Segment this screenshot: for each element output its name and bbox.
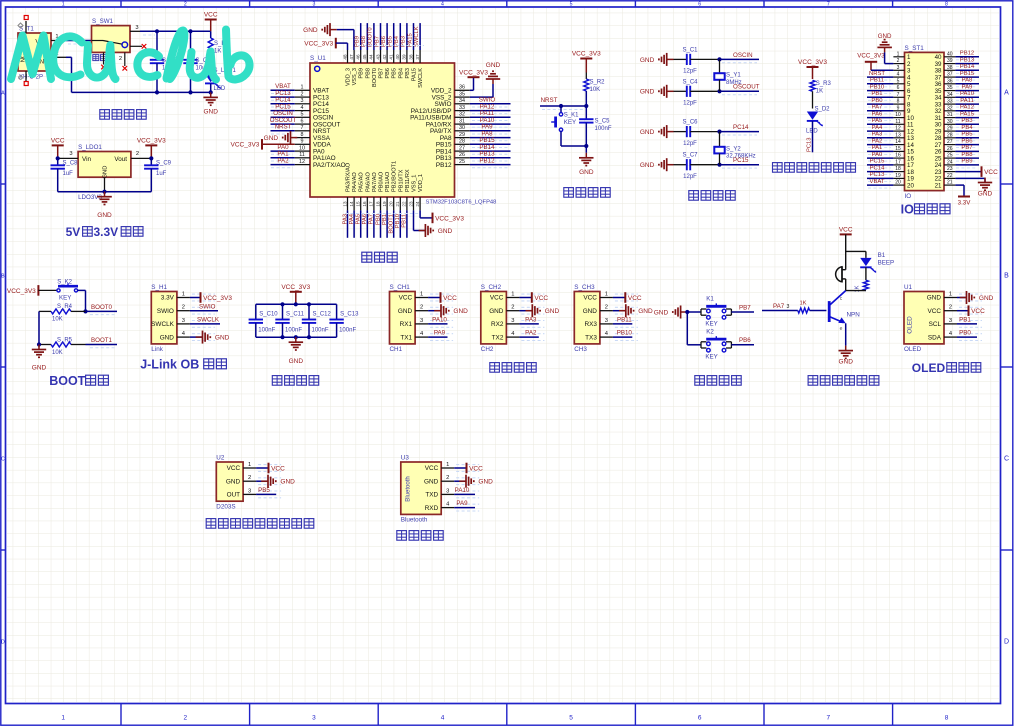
svg-text:PA5: PA5 xyxy=(872,118,883,124)
svg-text:29: 29 xyxy=(459,132,465,138)
svg-text:VCC_3V3: VCC_3V3 xyxy=(572,51,601,58)
svg-text:PB7: PB7 xyxy=(379,68,385,79)
power flag 3.3V (IO pin21) xyxy=(955,185,971,206)
wire and net label PA3 (S_CH2) xyxy=(519,317,538,324)
svg-text:D203S: D203S xyxy=(216,503,235,510)
svg-text:S_C9: S_C9 xyxy=(156,161,172,167)
svg-text:VCC: VCC xyxy=(469,465,483,472)
svg-text:PA4: PA4 xyxy=(349,213,355,224)
svg-text:2: 2 xyxy=(949,305,952,311)
svg-text:PB12: PB12 xyxy=(436,162,452,169)
svg-text:S_C4: S_C4 xyxy=(682,79,698,85)
svg-text:PB15: PB15 xyxy=(960,71,975,77)
svg-text:TX3: TX3 xyxy=(585,334,597,341)
svg-text:2: 2 xyxy=(182,305,185,311)
wire BOOT left rail xyxy=(37,311,41,346)
svg-text:PA9: PA9 xyxy=(456,500,468,507)
svg-text:S_R4: S_R4 xyxy=(57,304,73,310)
svg-text:14: 14 xyxy=(349,201,354,207)
wire K2 to BOOT0 node xyxy=(83,290,87,313)
svg-text:8: 8 xyxy=(301,132,304,138)
svg-text:PB9: PB9 xyxy=(359,68,365,79)
wire to K2 xyxy=(687,312,701,345)
svg-text:3: 3 xyxy=(182,318,185,324)
svg-text:36: 36 xyxy=(947,78,953,84)
wire T1 pin1 to switch xyxy=(66,41,92,45)
svg-text:15: 15 xyxy=(356,201,361,207)
svg-text:42: 42 xyxy=(382,54,387,60)
svg-text:PB10: PB10 xyxy=(617,330,633,337)
svg-text:VCC: VCC xyxy=(984,169,998,176)
svg-text:PB1: PB1 xyxy=(959,317,971,324)
svg-text:47: 47 xyxy=(349,54,354,60)
svg-text:BOOT0: BOOT0 xyxy=(368,27,374,47)
svg-text:PB0: PB0 xyxy=(959,330,971,337)
svg-text:1K: 1K xyxy=(799,301,806,307)
switch K2 KEY xyxy=(701,329,754,361)
resistor S_R5 10K xyxy=(39,337,86,356)
svg-text:PA6/AO: PA6/AO xyxy=(365,172,371,192)
svg-text:GND: GND xyxy=(398,308,413,315)
svg-text:3: 3 xyxy=(248,488,251,494)
wire switch pin3 to VCC rail xyxy=(140,29,211,35)
label 程序运行指示灯 xyxy=(773,163,856,173)
svg-text:SWIO: SWIO xyxy=(199,303,216,310)
svg-text:GND: GND xyxy=(640,162,655,169)
svg-text:14: 14 xyxy=(895,139,901,145)
svg-text:Bluetooth: Bluetooth xyxy=(401,517,428,524)
svg-text:PA3/RX/AO: PA3/RX/AO xyxy=(346,162,352,192)
svg-text:PB13: PB13 xyxy=(960,57,975,63)
svg-text:32: 32 xyxy=(459,112,465,118)
svg-text:PB10/TX: PB10/TX xyxy=(398,169,404,192)
svg-text:22: 22 xyxy=(947,173,953,179)
svg-text:S_C8: S_C8 xyxy=(63,161,79,167)
resistor 1K (alarm LED) xyxy=(846,280,869,292)
svg-text:PB8: PB8 xyxy=(365,68,371,79)
svg-text:PA3: PA3 xyxy=(872,132,883,138)
svg-text:OUT: OUT xyxy=(227,492,241,499)
svg-text:C: C xyxy=(1,457,5,463)
svg-text:PA3: PA3 xyxy=(342,214,348,225)
svg-text:2: 2 xyxy=(897,58,900,64)
svg-text:35: 35 xyxy=(459,92,465,98)
svg-text:PA7/AO: PA7/AO xyxy=(372,172,378,192)
svg-text:2: 2 xyxy=(511,305,514,311)
svg-text:PA6: PA6 xyxy=(872,111,883,117)
label 人体热释电感应模块 xyxy=(206,519,314,529)
svg-text:C: C xyxy=(1004,456,1009,463)
svg-text:VCC: VCC xyxy=(425,465,439,472)
svg-text:PA5: PA5 xyxy=(356,214,362,225)
svg-text:3: 3 xyxy=(420,318,423,324)
svg-text:PB11: PB11 xyxy=(617,317,632,324)
ground GND (IO pin2) xyxy=(877,33,893,64)
resistor S_R3 1K xyxy=(810,80,831,108)
svg-text:J-Link OB: J-Link OB xyxy=(140,358,199,372)
wire filter bottom rail xyxy=(256,335,337,339)
svg-text:8: 8 xyxy=(945,715,949,722)
svg-text:NRST: NRST xyxy=(869,71,885,77)
svg-text:GND: GND xyxy=(927,295,942,302)
svg-text:7: 7 xyxy=(826,715,830,722)
svg-text:VCC_3V3: VCC_3V3 xyxy=(304,41,333,48)
svg-text:PA2/TX/AO: PA2/TX/AO xyxy=(313,162,346,169)
svg-text:U1: U1 xyxy=(904,284,913,291)
svg-text:30: 30 xyxy=(459,125,465,131)
svg-text:13: 13 xyxy=(342,201,347,207)
svg-text:D: D xyxy=(1,640,5,646)
svg-text:Vin: Vin xyxy=(82,156,91,163)
svg-text:1: 1 xyxy=(897,51,900,57)
svg-text:21: 21 xyxy=(395,201,400,207)
svg-text:PB11/RX: PB11/RX xyxy=(405,169,411,192)
power flag VCC_3V3 at U1 pin48 VDD_3 xyxy=(304,38,347,50)
svg-text:OLED: OLED xyxy=(904,346,922,353)
connector S_ST1 IO header body and pins xyxy=(893,45,955,200)
power flag VCC_3V3 (filter) xyxy=(281,284,310,304)
wire U1 VDD_1 to VCC_3V3 flag xyxy=(420,210,464,223)
wire and net label PA10 (Bluetooth TXD) xyxy=(454,487,475,494)
svg-text:16: 16 xyxy=(362,201,367,207)
svg-text:S_CH2: S_CH2 xyxy=(481,284,502,291)
svg-text:100nF: 100nF xyxy=(595,126,612,132)
wires and net labels below U1 (PA3 PA4 PA5 PA6 PA7 PB0 PB1 BOOT1 PB10 PB11) xyxy=(342,210,348,237)
svg-text:12: 12 xyxy=(895,126,901,132)
svg-text:GND: GND xyxy=(226,478,241,485)
svg-text:3: 3 xyxy=(787,304,790,310)
svg-text:S_K2: S_K2 xyxy=(57,279,72,285)
svg-text:VCC: VCC xyxy=(271,465,285,472)
power flag VCC_3V3 (IO pin3) xyxy=(857,53,893,71)
svg-text:S_C1: S_C1 xyxy=(682,47,698,53)
svg-text:31: 31 xyxy=(459,119,465,125)
svg-text:4: 4 xyxy=(301,105,304,111)
svg-text:RX3: RX3 xyxy=(584,321,597,328)
svg-text:11: 11 xyxy=(299,152,305,158)
label 串口电路 xyxy=(490,363,536,373)
MCUclub logo xyxy=(11,30,250,80)
ground GND (LDO) xyxy=(97,192,112,219)
svg-text:PB11: PB11 xyxy=(870,78,884,84)
svg-text:45: 45 xyxy=(362,54,367,60)
svg-text:39: 39 xyxy=(947,58,953,64)
label OLED显示屏 xyxy=(912,361,981,375)
label 蓝牙模块 xyxy=(397,531,443,541)
no-ERC cross at switch pin4 xyxy=(101,52,106,69)
svg-text:S_Y1: S_Y1 xyxy=(726,73,741,79)
svg-text:PB3: PB3 xyxy=(405,68,411,79)
svg-text:PA10: PA10 xyxy=(960,91,975,97)
svg-text:VCC: VCC xyxy=(928,308,942,315)
svg-text:32: 32 xyxy=(947,105,953,111)
svg-text:GND: GND xyxy=(489,308,504,315)
svg-text:PB6: PB6 xyxy=(961,138,973,144)
svg-text:40: 40 xyxy=(947,51,953,57)
power flag VCC (OLED) xyxy=(957,305,985,316)
svg-text:S_U1: S_U1 xyxy=(310,55,326,62)
capacitor S_C6 12pF xyxy=(674,120,720,147)
svg-text:VBAT: VBAT xyxy=(870,179,885,185)
svg-text:PA5/AO: PA5/AO xyxy=(359,172,365,192)
label IO拓展口 xyxy=(901,203,950,217)
svg-text:12: 12 xyxy=(299,159,305,165)
svg-text:VCC: VCC xyxy=(443,295,457,302)
svg-text:5V: 5V xyxy=(66,225,81,239)
crystal S_Y2 32.768KHz xyxy=(714,132,755,165)
svg-text:VCC: VCC xyxy=(399,295,413,302)
power flag VCC (IO pin23) xyxy=(955,166,998,177)
svg-text:1K: 1K xyxy=(816,89,823,95)
svg-text:40: 40 xyxy=(395,54,400,60)
svg-text:26: 26 xyxy=(459,152,465,158)
svg-text:2: 2 xyxy=(605,305,608,311)
svg-text:33: 33 xyxy=(947,99,953,105)
svg-text:GND: GND xyxy=(32,365,47,372)
svg-text:PB6: PB6 xyxy=(385,68,391,79)
wire and net label BOOT1 xyxy=(86,337,118,348)
svg-text:17: 17 xyxy=(895,159,901,165)
svg-text:2: 2 xyxy=(446,475,449,481)
wire and net label OSCOUT xyxy=(717,84,759,95)
svg-text:5: 5 xyxy=(897,78,900,84)
svg-text:GND: GND xyxy=(640,129,655,136)
svg-text:33: 33 xyxy=(459,105,465,111)
svg-text:PA9: PA9 xyxy=(962,84,973,90)
ground GND at U1 pin8 VSSA xyxy=(264,131,298,144)
svg-text:2: 2 xyxy=(301,92,304,98)
svg-text:VCC_3V3: VCC_3V3 xyxy=(435,215,464,222)
svg-text:GND: GND xyxy=(579,169,594,176)
power flag VCC_3V3 (reset) xyxy=(572,51,601,73)
svg-text:19: 19 xyxy=(895,173,901,179)
wire and net label PA7 with base resistor 1K xyxy=(762,301,826,314)
svg-text:PA7: PA7 xyxy=(773,303,785,310)
ground GND (filter) xyxy=(289,337,304,365)
svg-text:32.768KHz: 32.768KHz xyxy=(726,153,756,159)
svg-text:27: 27 xyxy=(459,146,465,152)
power flag VCC (alarm) xyxy=(839,227,853,235)
wire and net label PC13 (run LED) xyxy=(806,121,812,152)
ground GND (crystal row PC14) xyxy=(640,125,674,138)
capacitor S_C8 1uF xyxy=(51,156,79,191)
capacitor S_C11 100nF xyxy=(275,304,304,337)
svg-text:34: 34 xyxy=(947,92,953,98)
svg-text:Link: Link xyxy=(151,346,163,353)
svg-text:10: 10 xyxy=(299,146,305,152)
svg-text:3: 3 xyxy=(446,488,449,494)
capacitor S_C3 10uF xyxy=(183,31,211,92)
svg-text:21: 21 xyxy=(935,182,942,189)
svg-text:12pF: 12pF xyxy=(683,141,697,147)
svg-text:2: 2 xyxy=(248,475,251,481)
svg-text:GND: GND xyxy=(103,166,109,179)
svg-text:22: 22 xyxy=(402,201,407,207)
svg-text:1K: 1K xyxy=(214,49,221,55)
svg-text:SWCLK: SWCLK xyxy=(418,68,424,88)
wire U1 VSS_1 to GND xyxy=(414,210,453,237)
label 滤波电路 xyxy=(272,376,318,386)
svg-text:S_LDO1: S_LDO1 xyxy=(78,144,102,151)
svg-text:SCL: SCL xyxy=(929,321,942,328)
connector T1 (XH-C-2P power input) xyxy=(18,16,66,86)
svg-text:PA0: PA0 xyxy=(872,152,883,158)
svg-text:PC13: PC13 xyxy=(870,172,885,178)
svg-text:GND: GND xyxy=(280,479,295,486)
wire and net label SWCLK xyxy=(190,317,220,324)
svg-text:S_CH1: S_CH1 xyxy=(390,284,411,291)
ground GND at U1 pin47 VSS_3 xyxy=(303,23,354,50)
svg-text:GND: GND xyxy=(160,334,175,341)
power flag VCC (S_CH1) xyxy=(428,292,457,303)
svg-text:34: 34 xyxy=(459,98,465,104)
connector U1 OLED display xyxy=(904,292,944,344)
wire and net label PB10 (S_CH3) xyxy=(613,330,633,337)
svg-text:VCC_3V3: VCC_3V3 xyxy=(230,142,259,149)
svg-text:6: 6 xyxy=(698,715,702,722)
svg-text:17: 17 xyxy=(369,201,374,207)
svg-text:2: 2 xyxy=(184,2,187,8)
svg-text:PB14: PB14 xyxy=(960,64,975,70)
ground GND (crystal row OSCIN) xyxy=(640,53,674,66)
svg-text:OLED: OLED xyxy=(912,361,946,375)
svg-text:PB10: PB10 xyxy=(870,84,885,90)
svg-text:25: 25 xyxy=(459,159,465,165)
svg-text:S_C12: S_C12 xyxy=(313,312,332,318)
wire filter top rail xyxy=(256,302,337,306)
svg-text:NPN: NPN xyxy=(847,312,861,319)
power flag VCC (power circuit) xyxy=(204,12,218,32)
ground GND (crystal row OSCOUT) xyxy=(640,85,674,98)
svg-text:21: 21 xyxy=(947,180,953,186)
svg-text:GND: GND xyxy=(979,295,994,302)
svg-text:1: 1 xyxy=(62,2,65,8)
svg-text:9: 9 xyxy=(897,105,900,111)
svg-text:S_C6: S_C6 xyxy=(682,120,698,126)
svg-text:CH1: CH1 xyxy=(390,346,403,353)
svg-text:KEY: KEY xyxy=(564,119,576,126)
wire and net label PB11 (S_CH3) xyxy=(613,317,632,324)
svg-text:44: 44 xyxy=(369,54,374,60)
svg-text:PA15: PA15 xyxy=(412,68,418,81)
svg-text:VSS_1: VSS_1 xyxy=(412,175,418,192)
power flag VCC_3V3 (BOOT) xyxy=(7,285,57,296)
wire buzzer to collector xyxy=(845,279,847,291)
ground GND (power circuit) xyxy=(203,92,218,115)
svg-text:NRST: NRST xyxy=(541,97,558,104)
svg-text:1: 1 xyxy=(420,292,423,298)
svg-text:K2: K2 xyxy=(706,329,714,336)
svg-text:KEY: KEY xyxy=(705,353,717,360)
wires and net labels above U1 (PB9 PB8 BOOT0 PB7 PB6 PB5 PB4 PB3 PA15 SWCLK) xyxy=(355,23,361,50)
capacitor S_C9 1uF xyxy=(144,156,172,191)
svg-text:PB6: PB6 xyxy=(739,337,751,344)
svg-text:43: 43 xyxy=(375,54,380,60)
svg-text:GND: GND xyxy=(264,135,279,142)
svg-text:GND: GND xyxy=(289,358,304,365)
svg-text:GND: GND xyxy=(438,228,453,235)
svg-text:1: 1 xyxy=(248,462,251,468)
svg-text:PC14: PC14 xyxy=(870,165,885,171)
svg-text:SWIO: SWIO xyxy=(157,308,174,315)
op-amp U1 main MCU body S_U1 xyxy=(310,55,496,205)
switch K1 KEY xyxy=(685,296,754,328)
wire emitter to GND xyxy=(845,323,847,345)
svg-text:10K: 10K xyxy=(52,317,63,323)
svg-text:PB4: PB4 xyxy=(961,125,973,131)
wire power-circuit bottom rail xyxy=(66,57,213,94)
svg-text:VDD_1: VDD_1 xyxy=(418,174,424,192)
svg-text:PA7: PA7 xyxy=(369,214,375,225)
svg-text:PA15: PA15 xyxy=(960,111,975,117)
svg-text:36: 36 xyxy=(459,85,465,91)
wire reset bottom xyxy=(561,144,588,153)
svg-text:VCC: VCC xyxy=(204,12,218,19)
svg-text:1: 1 xyxy=(949,292,952,298)
svg-text:PA4: PA4 xyxy=(872,125,883,131)
ground GND (crystal row PC15) xyxy=(640,158,674,171)
svg-text:Bluetooth: Bluetooth xyxy=(406,476,412,501)
wire and net label PA9 (S_CH1) xyxy=(428,330,447,337)
svg-text:CH3: CH3 xyxy=(574,346,587,353)
capacitor S_C7 12pF xyxy=(674,153,720,180)
connector S_CH3 serial port xyxy=(574,292,600,344)
svg-text:PA10: PA10 xyxy=(432,317,447,324)
svg-text:10: 10 xyxy=(895,112,901,118)
svg-text:100nF: 100nF xyxy=(339,328,356,334)
capacitor S_C13 100nF xyxy=(329,304,359,337)
svg-text:OSCIN: OSCIN xyxy=(733,52,753,59)
svg-text:37: 37 xyxy=(415,54,420,60)
regulator S_LDO1 xyxy=(58,144,152,201)
svg-text:6: 6 xyxy=(897,85,900,91)
svg-text:S_R5: S_R5 xyxy=(57,337,73,343)
svg-text:12pF: 12pF xyxy=(683,69,697,75)
wires and net labels right of S_ST1 xyxy=(955,51,979,60)
svg-text:PB12: PB12 xyxy=(960,51,974,57)
svg-text:A: A xyxy=(1004,90,1009,97)
switch S_SW1 xyxy=(92,18,143,66)
svg-text:100nF: 100nF xyxy=(285,328,302,334)
svg-text:3: 3 xyxy=(301,98,304,104)
svg-text:10K: 10K xyxy=(590,87,601,93)
svg-text:S_R2: S_R2 xyxy=(590,80,606,86)
svg-text:SWCLK: SWCLK xyxy=(197,317,220,324)
svg-text:5: 5 xyxy=(569,715,573,722)
svg-text:VCC: VCC xyxy=(839,227,853,234)
svg-text:3: 3 xyxy=(312,2,315,8)
svg-text:VCC_3V3: VCC_3V3 xyxy=(137,138,166,145)
svg-text:6: 6 xyxy=(301,119,304,125)
svg-text:3: 3 xyxy=(511,318,514,324)
label 复位电路 xyxy=(564,188,610,198)
svg-text:B: B xyxy=(1004,273,1009,280)
svg-text:19: 19 xyxy=(382,201,387,207)
capacitor S_C10 100nF xyxy=(249,304,279,337)
svg-text:K1: K1 xyxy=(706,296,714,303)
label 声光报警电路 xyxy=(808,376,879,386)
svg-text:5: 5 xyxy=(570,2,573,8)
svg-text:2: 2 xyxy=(136,151,139,157)
svg-text:S_CH3: S_CH3 xyxy=(574,284,595,291)
svg-text:GND: GND xyxy=(978,191,993,198)
svg-text:25: 25 xyxy=(947,153,953,159)
ground GND (BOOT) xyxy=(32,345,47,372)
label 晶振电路 xyxy=(689,191,735,201)
svg-text:S_Y2: S_Y2 xyxy=(726,146,741,152)
svg-text:12pF: 12pF xyxy=(683,101,697,107)
svg-text:STM32F103C8T6_LQFP48: STM32F103C8T6_LQFP48 xyxy=(426,200,497,206)
